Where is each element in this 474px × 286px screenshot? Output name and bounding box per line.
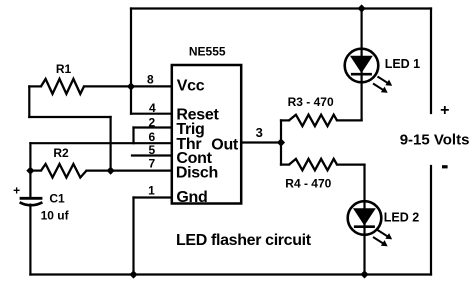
wire C1 bottom lead bbox=[29, 205, 31, 275]
LED D1 triangle bbox=[351, 56, 372, 72]
wire R1 left drop bbox=[28, 86, 30, 117]
svg-text:R1: R1 bbox=[56, 62, 72, 76]
svg-text:9-15 Volts: 9-15 Volts bbox=[400, 132, 470, 149]
resistor R4 bbox=[289, 159, 337, 170]
wire left vertical thr to C1 top bbox=[29, 143, 31, 197]
node junction R2 right bbox=[107, 167, 115, 175]
wire horizontal R1 to discharge column bbox=[29, 116, 110, 118]
svg-text:Gnd: Gnd bbox=[176, 189, 207, 206]
wire pin 6 Thr bbox=[30, 142, 171, 144]
svg-text:10 uf: 10 uf bbox=[41, 208, 70, 222]
svg-text:7: 7 bbox=[149, 157, 156, 171]
LED D1 cathode bar bbox=[351, 73, 372, 76]
capacitor C1 top plate bbox=[20, 197, 43, 200]
svg-text:LED 2: LED 2 bbox=[384, 211, 419, 225]
svg-text:Disch: Disch bbox=[176, 165, 218, 182]
wire R4 left lead bbox=[281, 164, 289, 166]
LED D2 circle bbox=[348, 201, 382, 235]
svg-text:6: 6 bbox=[149, 130, 156, 144]
wire R2 left lead bbox=[30, 170, 41, 172]
svg-text:NE555: NE555 bbox=[189, 45, 226, 59]
wire out branch vertical bbox=[280, 120, 282, 164]
wire bottom rail bbox=[30, 273, 431, 275]
wire R3 left lead bbox=[281, 119, 289, 121]
wire pin 1 Gnd bbox=[134, 196, 172, 198]
wire trig-thr vertical bbox=[132, 128, 134, 144]
node junction pin8 rail bbox=[127, 82, 135, 90]
LED D2 light arrows bbox=[373, 230, 391, 246]
wire R3 right lead bbox=[337, 119, 362, 121]
LED D1 light arrows bbox=[373, 77, 391, 93]
label battery minus bbox=[442, 165, 448, 168]
wire R2 right lead bbox=[87, 170, 111, 172]
svg-text:R3 - 470: R3 - 470 bbox=[288, 95, 334, 109]
resistor R2 bbox=[41, 164, 87, 178]
wire pin 3 Out bbox=[241, 141, 281, 143]
wire top rail bbox=[131, 7, 431, 9]
wire gnd vertical to bottom rail bbox=[132, 198, 134, 275]
svg-text:4: 4 bbox=[149, 101, 156, 115]
wire right rail upper bbox=[430, 9, 432, 114]
node junction R2 left bbox=[26, 167, 34, 175]
svg-text:1: 1 bbox=[148, 183, 155, 197]
node junction bottom gnd bbox=[129, 270, 137, 278]
wire pin 4 Reset bbox=[131, 113, 172, 115]
svg-text:Out: Out bbox=[211, 137, 239, 154]
svg-text:LED flasher circuit: LED flasher circuit bbox=[176, 232, 312, 249]
node junction top rail LED1 bbox=[358, 4, 366, 12]
LED D2 cathode bar bbox=[354, 225, 375, 228]
capacitor C1 curved plate bbox=[20, 202, 43, 205]
svg-text:2: 2 bbox=[149, 115, 156, 129]
resistor R1 bbox=[41, 79, 84, 94]
svg-text:+: + bbox=[440, 102, 449, 119]
LED D2 triangle bbox=[354, 209, 375, 225]
wire LED2 column bbox=[363, 165, 365, 275]
wire left vertical from top rail to pin 4 bbox=[130, 9, 132, 114]
svg-text:Vcc: Vcc bbox=[177, 78, 205, 95]
svg-text:R2: R2 bbox=[53, 146, 69, 160]
LED D1 circle bbox=[345, 49, 379, 83]
node junction bottom LED2 bbox=[360, 270, 368, 278]
svg-text:+: + bbox=[13, 183, 20, 197]
wire right rail lower bbox=[430, 166, 432, 275]
wire pin 7 Disch bbox=[111, 170, 172, 172]
svg-text:3: 3 bbox=[256, 125, 263, 140]
svg-text:8: 8 bbox=[147, 73, 154, 87]
svg-text:5: 5 bbox=[149, 143, 156, 157]
svg-text:R4 - 470: R4 - 470 bbox=[285, 177, 331, 191]
wire pin 2 Trig bbox=[134, 126, 172, 128]
svg-text:LED 1: LED 1 bbox=[385, 57, 420, 71]
IC U1 NE555 timer body bbox=[172, 65, 241, 204]
wire discharge column vertical bbox=[109, 117, 111, 171]
svg-text:C1: C1 bbox=[49, 192, 65, 206]
wire LED1 column bbox=[361, 9, 363, 121]
wire R4 right lead bbox=[337, 164, 365, 166]
wire R1 left lead bbox=[29, 85, 41, 87]
resistor R3 bbox=[289, 115, 337, 126]
node junction out branch bbox=[277, 138, 285, 146]
wire pin 5 Cont stub bbox=[132, 154, 172, 156]
wire pin 8 Vcc from R1 bbox=[84, 85, 172, 87]
